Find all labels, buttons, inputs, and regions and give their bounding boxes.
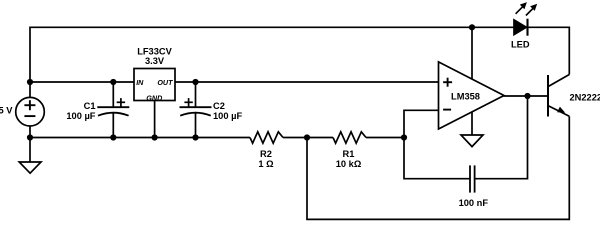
svg-text:R1: R1 <box>343 149 355 159</box>
wire left vertical and top rail to LED anode <box>30 27 514 82</box>
wire LED cathode along top and down to Q1 collector <box>528 27 570 74</box>
wire emitter return loop: sense node down, bottom run, up to Q1 emitter <box>307 116 569 219</box>
node D: R2/R1 sense node junction dot <box>304 134 310 140</box>
svg-text:R2: R2 <box>260 149 272 159</box>
node C2-bottom junction dot <box>192 134 198 140</box>
svg-text:100 µF: 100 µF <box>213 111 242 121</box>
capacitor C3 100 nF <box>470 165 475 192</box>
svg-text:LF33CV: LF33CV <box>137 46 172 56</box>
transistor Q1 2N2222 NPN <box>548 75 569 117</box>
node C1-bottom junction dot <box>110 134 116 140</box>
svg-text:100 nF: 100 nF <box>459 198 489 208</box>
svg-text:OUT: OUT <box>157 78 173 87</box>
wire R1 to feedback node <box>366 137 404 139</box>
node A: 5V positive node junction dot <box>27 79 33 85</box>
wire op-amp V- down to ground <box>471 112 473 135</box>
wire 3.3V rail: node A to regulator IN <box>30 81 134 83</box>
node E: feedback node junction dot <box>401 134 407 140</box>
ground symbol under op-amp <box>461 135 483 147</box>
svg-text:100 µF: 100 µF <box>66 111 95 121</box>
node F: V+ junction dot on top rail <box>469 24 475 30</box>
wire feedback node up to inverting input <box>404 110 439 137</box>
wire op-amp V+ up to top rail <box>471 27 473 79</box>
svg-text:LED: LED <box>511 39 530 49</box>
wire op-amp output to Q1 base <box>504 95 549 97</box>
svg-text:3.3V: 3.3V <box>145 56 165 66</box>
wire ground rail from node B to R2 <box>30 137 250 139</box>
ground symbol under source <box>19 138 41 174</box>
svg-text:2N2222: 2N2222 <box>570 92 600 102</box>
LED D1 <box>514 2 537 36</box>
capacitor C1 100 uF polarized <box>97 82 129 138</box>
svg-text:LM358: LM358 <box>451 92 480 102</box>
capacitor C2 100 uF polarized <box>180 82 212 138</box>
wire C3 right plate to output node <box>475 96 528 179</box>
voltage source V1 5 V <box>16 82 45 138</box>
wire regulator OUT rail to op-amp non-inverting input <box>175 81 439 83</box>
node G: output/feedback junction dot <box>524 93 530 99</box>
svg-text:IN: IN <box>136 78 144 87</box>
node C2-top junction dot <box>192 79 198 85</box>
regulator U2 LF33CV body <box>134 69 175 101</box>
resistor R1 10 kohm <box>333 132 366 143</box>
node regulator GND junction dot <box>152 134 158 140</box>
wire regulator GND pin down to ground rail <box>154 101 156 138</box>
svg-text:10 kΩ: 10 kΩ <box>336 159 362 169</box>
svg-text:C2: C2 <box>213 101 225 111</box>
node B: ground node junction dot under source <box>27 134 33 140</box>
resistor R2 1 ohm <box>250 132 283 143</box>
wire between R2 and R1 <box>283 137 333 139</box>
op-amp U1 LM358 <box>439 62 505 129</box>
node C1-top junction dot <box>110 79 116 85</box>
wire feedback node down and right to C3 left plate <box>404 138 470 179</box>
svg-text:5 V: 5 V <box>0 105 13 115</box>
svg-text:C1: C1 <box>84 101 96 111</box>
svg-text:1 Ω: 1 Ω <box>258 159 274 169</box>
